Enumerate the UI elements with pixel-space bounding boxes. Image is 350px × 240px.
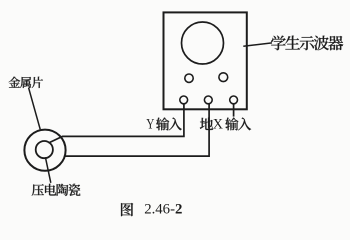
pointer line to piezo ceramic label (45, 157, 50, 183)
svg-text:Y: Y (146, 116, 154, 132)
label 学生示波器 (student oscilloscope) (271, 36, 343, 51)
svg-text:X: X (213, 116, 223, 132)
label 输入 (input) after Y (156, 117, 182, 130)
terminal X input (230, 96, 238, 104)
terminal ground (204, 96, 212, 104)
oscilloscope screen (182, 22, 224, 64)
pointer line to oscilloscope label (243, 43, 272, 46)
knob 2 (219, 73, 228, 82)
svg-text:2.46-: 2.46- (144, 202, 175, 218)
wire X terminal stub (233, 104, 235, 117)
wire Y input to piezo inner electrode (49, 104, 184, 143)
piezo ceramic electrode (inner circle) (36, 141, 53, 158)
svg-text:2: 2 (175, 202, 182, 218)
label 地 (ground) (200, 118, 213, 130)
pointer line to metal plate label (29, 88, 41, 130)
caption 图 (figure) (121, 203, 133, 216)
label 输入 (input) after X (225, 117, 251, 130)
piezo disc metal plate (outer circle) (24, 130, 65, 171)
label 压电陶瓷 (piezoelectric ceramic) (32, 184, 81, 196)
knob 1 (185, 74, 193, 82)
terminal Y input (180, 96, 188, 104)
label 金属片 (metal plate) (9, 77, 43, 88)
oscilloscope U1 body (164, 12, 247, 109)
wire ground to piezo outer plate (65, 104, 210, 156)
